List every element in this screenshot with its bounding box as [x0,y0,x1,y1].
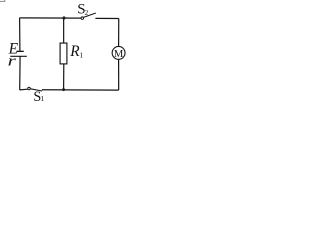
svg-text:2: 2 [85,9,89,17]
svg-text:1: 1 [40,94,44,101]
svg-text:r: r [8,54,17,70]
wire bottom left segment [20,88,28,91]
node junction dot bottom [62,88,65,91]
svg-text:1: 1 [79,51,83,60]
svg-text:M: M [114,49,124,60]
wire left side top [19,18,21,51]
battery E r short plate [17,50,24,52]
wire top right segment [95,17,118,19]
wire top left segment [20,17,81,19]
resistor R1 box [60,43,67,64]
wire right side bottom [118,59,120,90]
switch S2 lever [84,13,96,17]
wire left side bottom [19,56,21,90]
wire R1 branch upper [63,18,65,43]
node junction dot top [62,16,65,19]
wire R1 branch lower [63,64,65,90]
switch S1 lever [30,89,42,91]
battery E r long plate / fraction bar [10,55,27,57]
switch S1 contact circle [28,87,31,90]
wire right side top [118,19,120,47]
border fragment top-left [0,0,5,2]
motor M circle [112,46,125,59]
switch S2 contact circle [81,17,84,20]
wire bottom right segment [42,89,119,91]
